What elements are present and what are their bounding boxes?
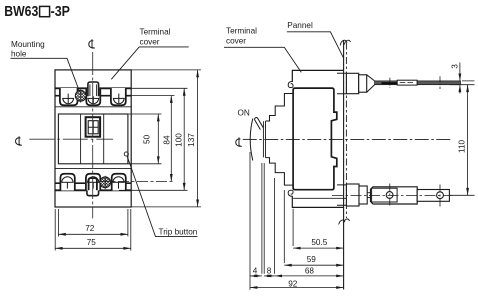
toggle tab inner lines bbox=[90, 84, 97, 96]
side cover bottom curl bbox=[288, 190, 293, 196]
label Mounting hole bbox=[11, 40, 45, 59]
terminal arch A3 bottom bbox=[112, 174, 126, 191]
label Terminal cover (side) bbox=[226, 27, 257, 46]
dim 3 bbox=[459, 63, 461, 94]
dim 50.5 bbox=[293, 247, 344, 249]
leader pannel bbox=[287, 32, 344, 58]
case outline front bbox=[55, 70, 131, 207]
toggle handle inner bbox=[88, 121, 98, 134]
side cover top box bbox=[292, 70, 343, 82]
dim 137 bbox=[197, 70, 199, 207]
pole divider 2 bbox=[103, 114, 105, 164]
panel break bottom bbox=[339, 219, 350, 225]
svg-text:137: 137 bbox=[187, 133, 196, 147]
handle dome arc bbox=[250, 119, 253, 161]
centerline horizontal side bbox=[243, 138, 452, 140]
terminal arch A1 bottom bbox=[60, 174, 74, 191]
svg-text:Mounting: Mounting bbox=[11, 40, 45, 49]
dim 8 bbox=[264, 275, 275, 277]
svg-text:100: 100 bbox=[175, 133, 184, 147]
svg-text:59: 59 bbox=[307, 255, 317, 264]
dim 84 bbox=[170, 96, 172, 182]
dim 100 extensions bbox=[119, 88, 188, 190]
screw head pole2 top bbox=[87, 94, 99, 104]
svg-text:68: 68 bbox=[305, 266, 315, 275]
seam line bottom bbox=[55, 168, 131, 170]
svg-text:8: 8 bbox=[267, 266, 272, 275]
dim 92 bbox=[250, 287, 344, 289]
svg-text:Terminal: Terminal bbox=[140, 28, 171, 37]
svg-text:50: 50 bbox=[142, 134, 151, 144]
svg-text:75: 75 bbox=[87, 238, 97, 247]
svg-text:-3P: -3P bbox=[51, 4, 71, 20]
terminal cutout U1 bbox=[60, 88, 78, 105]
title BW63[]-3P bbox=[4, 4, 70, 20]
rod tick 2 bbox=[389, 78, 391, 88]
plate line bottom bbox=[55, 182, 131, 184]
dim 3 extensions bbox=[450, 81, 475, 85]
svg-text:hole: hole bbox=[11, 50, 27, 59]
dim 72 extensions bbox=[58, 209, 128, 237]
dim 75 extensions bbox=[55, 209, 131, 251]
top terminal passthrough bbox=[337, 73, 346, 93]
terminal cutout U3 bbox=[111, 88, 126, 105]
svg-text:cover: cover bbox=[140, 38, 160, 47]
centerline symbol left bbox=[16, 136, 22, 145]
svg-text:Trip button: Trip button bbox=[159, 228, 198, 237]
side ext verticals bbox=[250, 152, 293, 290]
label Pannel bbox=[287, 21, 313, 30]
side body outline bbox=[293, 88, 337, 190]
dim 110 bottom extension bbox=[450, 194, 475, 196]
label Trip button bbox=[159, 228, 198, 237]
rod sleeve centerline bbox=[400, 82, 415, 84]
panel break top bbox=[340, 40, 350, 45]
svg-text:110: 110 bbox=[458, 139, 467, 152]
panel line solid bbox=[343, 41, 345, 290]
escutcheon steps top bbox=[266, 94, 294, 122]
side cover top curl bbox=[288, 82, 293, 88]
dim 100 bbox=[183, 88, 185, 190]
handle frame lines bbox=[263, 121, 265, 158]
svg-text:72: 72 bbox=[85, 224, 95, 233]
centerline symbol side bbox=[236, 137, 242, 146]
bottom terminal passthrough bbox=[337, 185, 346, 205]
svg-text:Terminal: Terminal bbox=[226, 27, 257, 36]
screw head pole1 top bbox=[62, 94, 74, 104]
pole divider 1 bbox=[80, 114, 82, 164]
leader terminal cover side bbox=[224, 47, 301, 72]
bottom stud between block and bar bbox=[367, 193, 371, 198]
side cover bottom box bbox=[292, 196, 343, 208]
bottom terminal block1 bbox=[346, 184, 359, 206]
shoulder line bottom bbox=[55, 189, 131, 191]
lever bbox=[255, 118, 264, 130]
screw head pole3 top bbox=[113, 94, 125, 104]
svg-text:cover: cover bbox=[226, 37, 246, 46]
rod thread mark bbox=[382, 82, 398, 84]
label ON bbox=[238, 109, 250, 118]
plate line top bbox=[55, 95, 131, 97]
leader mounting hole bbox=[11, 58, 80, 91]
dim 110 bbox=[467, 85, 469, 196]
dim 68 bbox=[275, 275, 344, 277]
svg-text:BW63: BW63 bbox=[4, 4, 38, 20]
svg-text:3: 3 bbox=[450, 64, 459, 69]
side cover bottom inner line bbox=[293, 197, 346, 199]
dim 84 extensions bbox=[126, 95, 175, 97]
bar1 inner clamp bbox=[372, 188, 398, 202]
top terminal block1 bbox=[346, 73, 358, 93]
dim 50 extensions bbox=[128, 114, 162, 164]
dim 59 bbox=[284, 264, 343, 266]
mounting hole bottom (hatched) bbox=[100, 176, 111, 189]
front face rect bbox=[58, 114, 128, 164]
shoulder line top bbox=[55, 87, 131, 89]
rod sleeve bbox=[397, 80, 417, 85]
bar hole1 bbox=[386, 192, 393, 199]
centerline horizontal front bbox=[29, 138, 113, 140]
screw head pole2 bottom bbox=[87, 177, 99, 189]
svg-text:92: 92 bbox=[288, 279, 298, 288]
svg-text:50.5: 50.5 bbox=[311, 238, 327, 247]
bottom bar segment1 bbox=[371, 187, 418, 204]
label Terminal cover (front) bbox=[140, 28, 171, 47]
bar hole centerline 1 bbox=[389, 184, 391, 208]
seam line top bbox=[55, 106, 131, 108]
center lug bottom bbox=[89, 178, 97, 190]
toggle handle cross bbox=[88, 121, 98, 134]
toggle tab bottom bbox=[87, 190, 99, 195]
bar hole2 bbox=[437, 192, 444, 199]
svg-text:ON: ON bbox=[238, 109, 250, 118]
terminal cutout U2 bbox=[86, 88, 100, 105]
escutcheon steps bottom bbox=[266, 158, 294, 186]
dim 72 bbox=[58, 233, 128, 235]
centerline vertical front bbox=[92, 52, 94, 218]
screw head pole3 bottom bbox=[112, 177, 124, 189]
top terminal block2 bbox=[359, 75, 367, 92]
panel line hidden bbox=[345, 43, 347, 219]
top terminal cone bbox=[367, 75, 375, 92]
svg-text:4: 4 bbox=[253, 266, 258, 275]
trip button bbox=[124, 152, 128, 156]
toggle tab top bbox=[88, 82, 99, 96]
top terminal rod bbox=[375, 81, 461, 85]
svg-text:Pannel: Pannel bbox=[287, 21, 313, 30]
dim 137 extensions bbox=[131, 70, 201, 207]
centerline symbol top bbox=[89, 39, 95, 48]
toggle handle outer bbox=[86, 117, 101, 137]
dim 50 bbox=[157, 114, 159, 164]
bar centerline horizontal bbox=[332, 194, 452, 196]
bottom bar segment2 bbox=[417, 190, 449, 202]
dim 75 bbox=[55, 247, 131, 249]
mounting hole top (hatched) bbox=[75, 89, 86, 102]
bottom terminal block2 bbox=[359, 186, 367, 204]
terminal arch A2 bottom bbox=[86, 174, 100, 191]
bar hole centerline 2 bbox=[439, 185, 441, 207]
leader terminal cover front bbox=[111, 47, 188, 79]
dim 4 bbox=[250, 275, 262, 277]
rod tick bbox=[439, 76, 441, 89]
screw head pole1 bottom bbox=[61, 177, 73, 189]
svg-text:84: 84 bbox=[163, 135, 172, 145]
leader trip button bbox=[127, 156, 197, 236]
